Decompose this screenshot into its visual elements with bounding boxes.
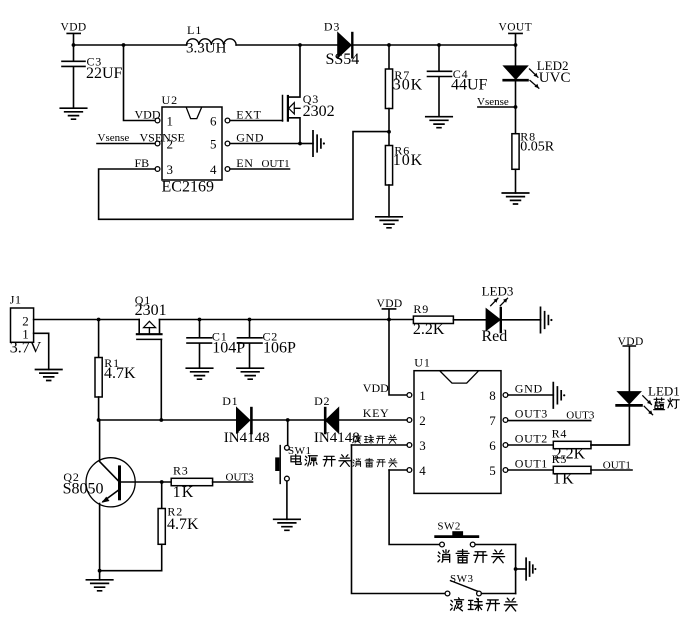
svg-text:UVC: UVC	[539, 70, 571, 86]
svg-text:1: 1	[419, 388, 426, 403]
svg-text:6: 6	[489, 438, 496, 453]
svg-text:2301: 2301	[135, 302, 167, 319]
svg-text:J1: J1	[10, 293, 22, 307]
svg-text:2302: 2302	[303, 103, 335, 120]
net label OUT1 (EN pin)	[262, 158, 290, 170]
svg-text:SW1: SW1	[288, 445, 312, 457]
node junction U2-VDD drop	[122, 43, 126, 47]
svg-text:OUT3: OUT3	[515, 406, 548, 420]
node junction Q3 source / GND	[298, 142, 313, 146]
svg-text:OUT1: OUT1	[262, 158, 290, 170]
svg-text:2.2K: 2.2K	[413, 321, 445, 338]
svg-text:10K: 10K	[393, 152, 423, 169]
node junction SW1	[286, 418, 290, 422]
diode D3 SS54	[324, 19, 359, 67]
ground (below R8)	[502, 193, 528, 204]
connector J1	[10, 293, 42, 357]
svg-text:3: 3	[167, 162, 174, 177]
wire FB feedback path to R6/R7 node	[99, 132, 389, 220]
svg-text:3.3UH: 3.3UH	[186, 41, 227, 57]
pin U2-5 GND	[225, 130, 300, 146]
ground (SW1)	[274, 519, 300, 530]
pin U2-4 EN	[225, 156, 289, 172]
svg-text:4.7K: 4.7K	[104, 365, 136, 382]
node junction C2 top	[248, 318, 252, 322]
power symbol VDD (LED1)	[618, 336, 644, 392]
led LED1 blue	[591, 383, 680, 445]
text label 消毒开关 (pin4 net)	[353, 458, 397, 467]
node junction R1/Q2	[97, 418, 101, 422]
net label OUT1 (R5)	[603, 459, 631, 471]
svg-text:Red: Red	[482, 328, 508, 345]
wire Q2 base to R3	[121, 481, 171, 483]
node junction R7 top	[387, 43, 391, 47]
svg-text:22UF: 22UF	[86, 65, 123, 82]
svg-text:Vsense: Vsense	[477, 96, 509, 108]
node junction C1 top	[198, 318, 202, 322]
svg-text:5: 5	[489, 463, 496, 478]
wire top rail VDD to L1	[74, 44, 187, 46]
svg-text:D2: D2	[314, 394, 330, 408]
svg-text:1K: 1K	[173, 484, 195, 501]
svg-text:4: 4	[419, 463, 426, 478]
svg-text:L1: L1	[187, 23, 202, 37]
pin U1-6 OUT2	[503, 431, 553, 447]
ground (U1 GND pin)	[553, 383, 565, 408]
svg-text:GND: GND	[515, 381, 543, 395]
node junction R7/R6/FB	[387, 130, 391, 134]
power symbol VDD (bottom rail)	[377, 298, 403, 320]
resistor R6 10K	[385, 143, 423, 216]
resistor R9 2.2K	[413, 302, 487, 338]
svg-text:OUT2: OUT2	[515, 431, 548, 445]
svg-text:4.7K: 4.7K	[167, 516, 199, 533]
svg-text:OUT3: OUT3	[566, 410, 595, 422]
svg-text:30K: 30K	[393, 77, 423, 94]
wire Q1 gate to key rail	[160, 339, 162, 420]
svg-text:R4: R4	[552, 427, 568, 441]
resistor R4 2.2K	[552, 427, 628, 463]
resistor R8 0.05R	[512, 129, 555, 193]
wire VDD to U1 pin1	[389, 320, 407, 396]
ground (below C2)	[237, 368, 263, 379]
ic U2 EC2169	[162, 93, 223, 195]
svg-text:U2: U2	[162, 93, 179, 107]
node junction C3/VDD	[72, 43, 76, 47]
pin U1-1 VDD	[363, 381, 412, 397]
svg-text:VDD: VDD	[135, 107, 161, 121]
svg-text:VDD: VDD	[61, 22, 87, 34]
ground (U2 GND / Q3 source)	[313, 131, 325, 156]
svg-text:5: 5	[210, 137, 217, 152]
svg-text:3.7V: 3.7V	[10, 340, 42, 357]
pin U1-8 GND	[503, 381, 553, 397]
capacitor C3	[62, 45, 123, 108]
svg-text:KEY: KEY	[363, 406, 389, 420]
svg-text:EN: EN	[236, 156, 253, 170]
power symbol VDD (top left)	[61, 22, 87, 45]
svg-text:Vsense: Vsense	[98, 132, 130, 144]
node junction R2/base	[160, 480, 164, 484]
text label 蓝灯 (LED1)	[654, 398, 680, 410]
wire D1 to D2	[251, 419, 325, 421]
ground (SW2/SW3)	[526, 558, 536, 580]
svg-text:106P: 106P	[263, 340, 296, 357]
wire Q1 drain rail (bottom VDD rail)	[160, 319, 414, 321]
transistor Q2 S8050	[63, 420, 136, 580]
led LED3 Red	[482, 284, 541, 345]
node junction Q1 gate	[159, 418, 163, 422]
capacitor C1 104P	[187, 320, 245, 369]
svg-text:R3: R3	[173, 463, 189, 477]
svg-text:2: 2	[419, 413, 426, 428]
transistor Q1 2301 p-mosfet	[135, 293, 167, 340]
svg-text:D1: D1	[222, 394, 238, 408]
net label Vsense (U2)	[98, 132, 130, 144]
ground (J1 pin1)	[36, 370, 62, 381]
capacitor C4	[428, 45, 488, 117]
svg-text:3: 3	[419, 438, 426, 453]
diode D2 IN4148	[314, 394, 360, 446]
wire SW2/SW3 to ground	[514, 545, 526, 594]
svg-text:VSENSE: VSENSE	[140, 130, 185, 144]
svg-text:0.05R: 0.05R	[520, 139, 555, 154]
node junction VDD rail	[387, 318, 391, 322]
wire U1 pin3 to SW3	[352, 445, 446, 594]
switch SW1 power button	[275, 420, 311, 519]
resistor R5 1K	[552, 452, 632, 488]
pin U1-5 OUT1	[503, 456, 553, 472]
svg-text:SW3: SW3	[450, 573, 474, 585]
wire R2 bottom to Q2 emitter	[98, 569, 162, 573]
text label 消毒开关 (SW2)	[438, 550, 505, 563]
net label OUT3 (pin7)	[566, 410, 595, 422]
ground (LED3 cathode)	[541, 307, 553, 332]
text label 滚珠开关 (SW3)	[450, 598, 517, 611]
power symbol VOUT	[499, 22, 533, 45]
text label 滚珠开关 (pin3 net)	[353, 435, 397, 444]
transistor Q3 2302 n-mosfet	[283, 45, 335, 144]
svg-text:OUT3: OUT3	[226, 472, 255, 484]
switch SW2 disinfect button	[436, 521, 516, 547]
pin U1-7 OUT3	[503, 406, 591, 422]
wire VDD rail to U2 pin1	[124, 45, 156, 121]
svg-text:7: 7	[489, 413, 496, 428]
pin U1-4	[389, 468, 412, 473]
wire D2 to U1 KEY pin	[338, 419, 407, 421]
diode D1 IN4148	[222, 394, 269, 446]
svg-text:SW2: SW2	[437, 521, 461, 533]
svg-text:U1: U1	[414, 356, 431, 370]
svg-text:1K: 1K	[553, 471, 575, 488]
wire D3 to VOUT	[352, 44, 515, 46]
svg-text:EXT: EXT	[236, 107, 261, 121]
net label OUT3 (R3)	[226, 472, 255, 484]
node junction C4 top	[437, 43, 441, 47]
resistor R7 30K	[385, 45, 423, 146]
pin U2-1 VDD	[135, 107, 161, 123]
node junction Q3 drain	[298, 43, 302, 47]
svg-text:IN4148: IN4148	[314, 430, 360, 446]
svg-text:OUT1: OUT1	[515, 456, 548, 470]
text label 电源 开关 (power switch, SW1)	[291, 454, 351, 466]
wire U1 pin4 to SW2	[389, 470, 439, 545]
pin U1-3	[352, 443, 412, 448]
resistor R2 4.7K	[158, 482, 199, 571]
svg-text:FB: FB	[135, 156, 150, 170]
pin U2-2 VSENSE	[97, 130, 185, 146]
resistor R3 1K	[171, 463, 252, 501]
svg-text:6: 6	[210, 114, 217, 129]
svg-text:VDD: VDD	[363, 381, 389, 395]
svg-text:R5: R5	[552, 452, 568, 466]
switch SW3 ball switch	[445, 573, 515, 596]
svg-text:D3: D3	[324, 19, 340, 33]
wire J1 pin2 to rail	[34, 319, 140, 321]
ground (below C3)	[60, 108, 86, 119]
svg-text:VOUT: VOUT	[499, 22, 533, 34]
svg-text:104P: 104P	[212, 340, 245, 357]
ic U1	[414, 356, 501, 494]
svg-text:1: 1	[167, 114, 174, 129]
svg-text:8: 8	[489, 388, 496, 403]
svg-text:R9: R9	[413, 302, 429, 316]
pin U2-6 EXT	[225, 107, 282, 123]
svg-text:LED3: LED3	[482, 284, 514, 299]
svg-text:44UF: 44UF	[451, 76, 488, 93]
svg-text:LED1: LED1	[648, 383, 680, 398]
capacitor C2 106P	[238, 320, 297, 369]
ground (below R6)	[376, 217, 402, 228]
inductor L1	[186, 23, 236, 57]
pin U1-2 KEY	[363, 406, 412, 422]
ground (below C1)	[186, 368, 212, 379]
ground (Q2 emitter)	[86, 580, 112, 591]
svg-text:S8050: S8050	[63, 481, 104, 498]
svg-text:4: 4	[210, 162, 217, 177]
wire J1 pin1 to ground	[34, 333, 49, 369]
svg-text:OUT1: OUT1	[603, 459, 631, 471]
svg-text:SS54: SS54	[326, 51, 360, 68]
ground (below C4)	[426, 117, 452, 128]
wire L1 to D3	[236, 44, 338, 46]
svg-text:GND: GND	[236, 130, 264, 144]
svg-text:EC2169: EC2169	[162, 179, 214, 196]
resistor R1 4.7K	[95, 320, 136, 421]
net label Vsense (LED2/R8)	[477, 96, 517, 109]
pin U2-3 FB	[135, 156, 160, 172]
led LED2 UVC	[504, 45, 571, 134]
svg-text:IN4148: IN4148	[224, 430, 270, 446]
node junction R1 top	[97, 318, 101, 322]
node junction VOUT/LED2	[514, 43, 518, 47]
wire key rail R1 to D1	[99, 419, 237, 421]
